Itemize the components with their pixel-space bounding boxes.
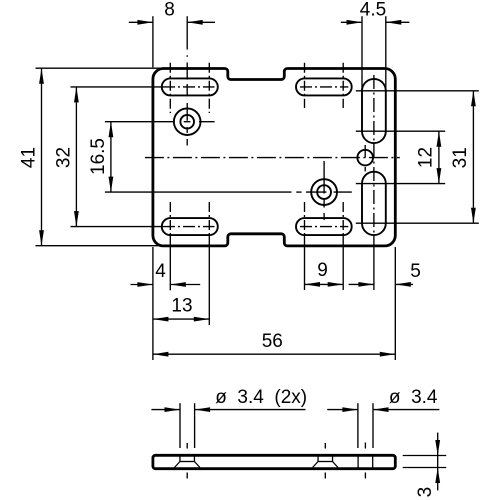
dim 32 label — [54, 147, 75, 168]
slot right-top (vertical) — [362, 79, 386, 143]
hole B outer circle (bottom countersink) — [311, 179, 337, 205]
centre line vertical-slot top arc2 / ext for 12 — [356, 130, 445, 132]
centre line vertical slot column x=373.9 — [373, 75, 375, 246]
dim 8 extension line left (plate edge) — [152, 16, 154, 67]
dim 8 line with arrows — [129, 20, 215, 25]
svg-text:16.5: 16.5 — [88, 138, 109, 175]
hole C small circle (right, on centre line) — [357, 150, 373, 166]
dim 31 line with arrows — [471, 91, 476, 223]
slot bottom-left — [162, 218, 218, 235]
extension line plate right edge (5/56) — [394, 247, 396, 360]
hole B inner circle — [317, 185, 331, 199]
dim 13 line with arrows — [153, 317, 209, 322]
dim dia3.4 extension line right — [372, 403, 374, 448]
centre line slot top-right arc1 — [304, 63, 306, 108]
side view countersunk hole A — [175, 456, 200, 467]
hole A outer circle (top-left countersink) — [174, 108, 201, 135]
centre line slot bottom-right horizontal — [300, 226, 348, 228]
svg-text:31: 31 — [450, 147, 471, 168]
dim 41 line with arrows — [39, 68, 44, 246]
centre line vertical-slot top arc1 / ext for 31 — [356, 90, 479, 92]
dim dia3.4(2x) extension line right — [194, 403, 196, 448]
dim dia3.4(2x) label — [215, 387, 307, 408]
dim 56 label — [262, 331, 283, 352]
svg-text:8: 8 — [164, 0, 175, 20]
dim dia3.4(2x) extension line left — [179, 403, 181, 448]
side view centre line hole A — [186, 443, 188, 479]
dim 12 line with arrows — [437, 131, 442, 183]
dim 4.5 extension line left — [361, 16, 363, 91]
dim 5 label — [410, 261, 421, 282]
dim 16.5 label — [88, 138, 109, 175]
centre line slot top-left arc2 — [208, 63, 210, 113]
dim 41 extension line bottom — [36, 245, 164, 247]
centre line vertical-slot bottom arc2 / ext for 31 — [356, 222, 479, 224]
dim 16.5 extension top / hole A centre line — [105, 121, 215, 123]
dim 8 label — [164, 0, 175, 20]
centre line slot top-right horizontal — [300, 86, 348, 88]
svg-text:12: 12 — [415, 147, 436, 168]
svg-text:56: 56 — [262, 331, 283, 352]
extension line slot arc x=170.3 (dim 4) — [169, 202, 171, 290]
dim 3 extension line top — [403, 455, 447, 457]
svg-text:41: 41 — [19, 147, 40, 168]
slot right-bottom (vertical) — [362, 172, 386, 235]
side view centre line hole B — [324, 443, 326, 479]
dim 41 extension line top — [36, 67, 164, 69]
centre line slot top-right arc2 — [342, 63, 344, 108]
dim 8 extension / centre line hole A vertical — [186, 16, 188, 145]
svg-text:32: 32 — [54, 147, 75, 168]
dim 41 label — [19, 147, 40, 168]
horizontal centre line — [145, 157, 400, 159]
dim 32 line with arrows — [74, 87, 79, 227]
svg-text:4: 4 — [155, 261, 166, 282]
extension line slot arc x=343.2 (dim 9) — [342, 202, 344, 290]
slot top-left — [162, 78, 218, 95]
dim 32 extension bottom / slot centre line — [71, 226, 215, 228]
dim 5 line with arrows — [349, 282, 413, 287]
slot top-right — [296, 78, 352, 95]
svg-text:5: 5 — [410, 261, 421, 282]
dim dia3.4 label — [389, 387, 438, 408]
svg-text:13: 13 — [171, 295, 192, 316]
side view plate outline — [153, 455, 395, 468]
svg-text:9: 9 — [317, 260, 328, 281]
side view plain hole C — [358, 456, 373, 467]
dim 16.5 line with arrows — [109, 122, 114, 192]
dim 9 line with arrows — [305, 282, 344, 287]
centre line hole B vertical — [323, 161, 325, 220]
dim 9 label — [317, 260, 328, 281]
extension line slot arc x=304.5 (dim 9) — [304, 202, 306, 290]
dim 3 line with arrows — [435, 433, 440, 491]
dim 3 extension line bottom — [403, 467, 447, 469]
dim 56 line with arrows — [153, 352, 395, 357]
plate outline (main top view) — [153, 69, 395, 246]
centre line vertical-slot bottom arc1 / ext for 12 — [356, 183, 445, 185]
svg-text:ø 3.4 (2x): ø 3.4 (2x) — [215, 387, 307, 408]
dim 4 line with arrows — [131, 282, 201, 287]
extension line plate left edge (4/13/56) — [152, 247, 154, 360]
dim 4.5 label — [360, 0, 386, 21]
dim 12 label — [415, 147, 436, 168]
svg-text:ø 3.4: ø 3.4 — [389, 387, 438, 408]
dim 4.5 line with arrows — [341, 20, 410, 25]
slot bottom-right — [296, 218, 352, 235]
side view countersunk hole B — [313, 456, 338, 467]
dim 31 label — [450, 147, 471, 168]
svg-text:4.5: 4.5 — [360, 0, 386, 21]
extension line vertical-slot centre (dim 5) — [373, 246, 375, 290]
dim 4.5 extension line right — [385, 16, 387, 91]
side view centre line hole C — [364, 443, 366, 479]
centre line hole C vertical — [364, 145, 366, 171]
dim dia3.4 extension line left — [357, 403, 359, 448]
dim 4 label — [155, 261, 166, 282]
hole A inner circle — [180, 115, 194, 129]
centre line slot top-left arc1 — [169, 63, 171, 113]
svg-text:3: 3 — [415, 487, 436, 498]
dim 16.5 extension bottom / hole B centre line — [105, 191, 352, 193]
dim dia3.4 line with arrows — [327, 407, 439, 412]
dim 3 label — [415, 487, 436, 498]
extension line slot arc x=209.3 (dim 13) — [208, 202, 210, 325]
dim 32 extension top / slot centre line — [71, 86, 215, 88]
dim dia3.4(2x) line with arrows — [151, 407, 305, 412]
dim 13 label — [171, 295, 192, 316]
